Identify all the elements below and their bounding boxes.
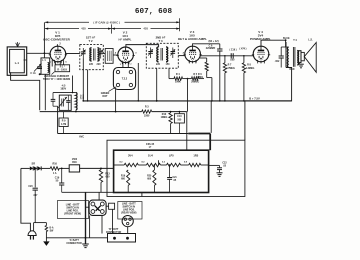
tube V1 1R5 OSC-CONVERTER (50, 46, 66, 62)
switch note left box (58, 201, 89, 219)
svg-text:R 3: R 3 (145, 106, 149, 109)
svg-text:1R5: 1R5 (193, 154, 198, 158)
trimmer capacitor T2 secondary (98, 51, 103, 53)
tube V2 1U4 IF amplifier (118, 47, 134, 63)
svg-text:THRU 'R' = 1000 OHMS: THRU 'R' = 1000 OHMS (43, 78, 71, 81)
svg-text:( IF GAIN @ 455KC ): ( IF GAIN @ 455KC ) (93, 20, 120, 24)
V3 bottom pins (195, 61, 197, 63)
svg-text:L-1: L-1 (15, 61, 20, 65)
wire V3 plate to coupling network (200, 55, 254, 57)
svg-text:1 A: 1 A (53, 172, 57, 175)
capacitor C21 inside box (169, 164, 171, 166)
resistor R16 (50, 167, 59, 170)
winding T4 secondary (297, 51, 298, 65)
capacitor box 500MMF (174, 114, 184, 123)
AVC line M3 (58, 133, 189, 135)
svg-text:C13: C13 (177, 116, 182, 118)
antenna symbol (16, 43, 18, 47)
svg-text:3V4: 3V4 (128, 154, 133, 158)
filament wiring inner box (114, 150, 209, 192)
dimension tick above V2 (111, 24, 113, 33)
tube V4 3V4 power amplifier (253, 46, 269, 62)
wire from tube area down to mixer network (72, 76, 74, 93)
resistor R10 1MEG (170, 112, 172, 113)
svg-text:L.S.: L.S. (308, 39, 313, 42)
svg-text:(REAR VIEW): (REAR VIEW) (121, 211, 136, 214)
tuning capacitor C1A (37, 66, 42, 68)
svg-text:LP5: LP5 (169, 154, 174, 158)
svg-text:C66-45: C66-45 (146, 143, 155, 146)
svg-text:OSC-CONVERTER: OSC-CONVERTER (43, 37, 71, 41)
svg-text:220: 220 (156, 63, 161, 66)
trimmer capacitor T3 secondary (171, 51, 176, 53)
svg-text:DOT: DOT (102, 95, 108, 98)
wire stub above filament line (158, 160, 160, 165)
svg-text:220: 220 (97, 63, 102, 66)
svg-text:( C16 ): ( C16 ) (229, 49, 236, 51)
core T3 (160, 48, 162, 61)
svg-text:R 1 *: R 1 * (60, 67, 65, 69)
wire T2 secondary to V2 grid (103, 53, 105, 55)
svg-text:455: 455 (143, 27, 148, 31)
svg-text:100K: 100K (175, 81, 181, 84)
node AVC osc can (115, 111, 117, 113)
wire box to switch (98, 193, 100, 201)
wire plug second lead (33, 223, 35, 231)
grid resistor box R9 (59, 118, 68, 127)
wire M2 end down to M3 (186, 112, 188, 134)
wire top of mixer network (53, 92, 76, 94)
svg-text:(FRONT VIEW): (FRONT VIEW) (64, 213, 81, 216)
svg-text:1MEG: 1MEG (161, 116, 168, 119)
svg-text:3300: 3300 (144, 114, 150, 117)
thick chassis lead (85, 192, 87, 244)
svg-text:T 3: T 3 (158, 39, 162, 43)
svg-text:DET & AUDIO AMPL: DET & AUDIO AMPL (178, 37, 207, 41)
capacitor C20 .047 across line (34, 168, 36, 187)
fuse coil B-A lead (45, 223, 47, 226)
resistor R13 680 (100, 168, 102, 169)
svg-text:150: 150 (166, 63, 171, 66)
winding T3 primary (157, 47, 159, 62)
wire osc can right lead to B+ bus (137, 63, 139, 101)
svg-text:R 4: R 4 (176, 73, 180, 76)
wire V4 plate to output transformer (261, 40, 286, 47)
svg-text:COIL: COIL (82, 94, 84, 100)
svg-text:T 2: T 2 (88, 39, 92, 43)
svg-text:R18: R18 (72, 161, 77, 164)
wire inner box bottom to outer box bottom (141, 193, 143, 197)
dimension line IF GAIN @ 455KC (45, 21, 89, 23)
svg-text:1MEG: 1MEG (196, 76, 203, 79)
volume control box (59, 95, 71, 110)
filament string resistors (114, 164, 125, 166)
svg-text:3.3MEG: 3.3MEG (246, 67, 255, 70)
wire from M3 into filament box (186, 134, 188, 151)
svg-text:680: 680 (106, 176, 111, 179)
wire antenna to V1 grid (27, 52, 50, 54)
svg-text:1U4: 1U4 (148, 154, 153, 158)
B+ 7.5V bus (83, 100, 291, 102)
trimmer capacitor T3 primary (148, 51, 153, 53)
svg-text:607, 608: 607, 608 (135, 8, 173, 16)
wire T4 primary bottom to B+ bus (245, 68, 292, 101)
resistor R1 metering note box (55, 65, 70, 72)
node antenna/grid junction (39, 53, 41, 80)
trimmer capacitor T2 primary (81, 51, 86, 53)
oscillator/antenna coil L1 box (41, 58, 50, 74)
AC plug (28, 231, 36, 236)
svg-text:T.2.2: T.2.2 (122, 78, 128, 81)
wire bus down to B- corner (210, 101, 212, 133)
capacitor inside network (66, 100, 70, 102)
svg-text:BLUE: BLUE (283, 37, 290, 40)
IF transformer T2 dashed can (80, 45, 104, 70)
wire vertical from dimension arrows to grid line (43, 22, 45, 58)
wire V2 plate to 2nd IF primary (126, 45, 159, 48)
V1 bottom pin stubs (51, 60, 53, 67)
ground speaker (299, 63, 301, 64)
svg-text:R - 100 K: R - 100 K (57, 70, 67, 72)
svg-text:B-A: B-A (49, 227, 53, 230)
svg-text:C20: C20 (28, 186, 33, 188)
svg-text:20MEG: 20MEG (191, 81, 199, 84)
svg-text:OSC: OSC (79, 95, 81, 100)
loop antenna L-1 (7, 47, 27, 75)
power line from plug (21, 167, 30, 169)
svg-text:220MMF: 220MMF (206, 47, 216, 50)
svg-text:I-F AMPL: I-F AMPL (118, 37, 131, 41)
connector socket pictorial (122, 216, 133, 227)
svg-text:(84 + 12): (84 + 12) (208, 40, 218, 43)
wire osc can to AVC bus (115, 90, 117, 112)
dimension line 455 right segment (112, 28, 141, 30)
oscillator coil can pictorial (113, 68, 135, 90)
wire R13 down to chassis line (100, 182, 102, 192)
wire V1 pin to B+ bus (63, 65, 65, 69)
svg-text:CONNECTOR: CONNECTOR (66, 242, 82, 245)
svg-text:.005: .005 (230, 58, 235, 61)
winding T2 secondary (97, 48, 99, 61)
coupling capacitor C7 .005 (230, 53, 232, 58)
svg-text:220: 220 (89, 63, 94, 66)
svg-text:.002: .002 (275, 60, 280, 63)
filament shunt resistor R19 (127, 164, 129, 166)
dimension tick right end (179, 18, 181, 31)
core T2 (93, 49, 95, 61)
resistor R3 in AVC bus (142, 110, 152, 113)
tube V3 1U5 det audio (185, 46, 201, 62)
wire plug to power line (21, 168, 31, 231)
wire T3 can ground to bus (156, 68, 158, 101)
wire detector junction down to B- line (187, 79, 189, 112)
capacitor C5 left (51, 98, 56, 100)
svg-text:C21: C21 (172, 177, 177, 179)
wire T3 secondary to V3 grid (178, 55, 185, 57)
wire T2 can ground lead to bus (87, 70, 89, 101)
detector load resistors R4 R5 (169, 78, 174, 80)
switch note right box (118, 202, 142, 220)
wire V1 plate to 1st IF (65, 53, 80, 55)
B batt connector box (108, 234, 136, 243)
A batt line (46, 237, 107, 239)
grid coupling box to V2 (105, 49, 113, 64)
wire L1 box bottom to AVC bus (44, 74, 46, 110)
node bus T3 (156, 100, 158, 102)
svg-text:4.7MEG: 4.7MEG (226, 67, 235, 70)
dimension line 455 left segment (45, 28, 79, 30)
wires from switch bottom (89, 215, 91, 237)
svg-text:4.7M: 4.7M (61, 123, 66, 126)
small box right of switch (106, 205, 109, 207)
wire T3 secondary bottom to detector load (168, 68, 170, 78)
oscillator coil L2 (76, 93, 77, 110)
winding T2 primary (90, 48, 92, 61)
capacitor C22 to chassis (209, 164, 220, 166)
wire R6 to bus (207, 77, 212, 79)
resistor R18 1500 boxed (69, 165, 79, 172)
svg-text:R19: R19 (121, 175, 126, 177)
svg-text:AVC: AVC (79, 136, 84, 139)
capacitor C17 .002 across primary (282, 40, 284, 56)
svg-text:RED: RED (289, 68, 294, 71)
line-batt switch pictorial (89, 200, 106, 215)
wire T2 primary return to bus (82, 59, 84, 101)
svg-text:R16: R16 (53, 163, 58, 166)
wire connector socket to box (127, 227, 129, 234)
wire loop bottom return (11, 72, 40, 110)
svg-text:1500: 1500 (72, 158, 78, 161)
wire V3 plate to bypass (193, 44, 220, 47)
battery cable outer box (107, 140, 245, 196)
svg-text:455: 455 (81, 27, 86, 31)
svg-text:C 1A: C 1A (30, 72, 36, 75)
svg-text:B + 7.5V: B + 7.5V (249, 97, 260, 101)
wire B+ bus down right side (244, 101, 246, 140)
ground A lead (43, 241, 49, 246)
resistor R8 3.3MEG (243, 55, 245, 57)
svg-text:R20: R20 (147, 175, 152, 177)
resistor R6 V3 cathode (205, 62, 208, 71)
pin 2 stub V1 top (56, 44, 58, 46)
V2 bottom pins to oscillator coil can (122, 62, 124, 68)
resistor R7 4.7MEG grid leak (224, 55, 226, 57)
svg-text:C22: C22 (222, 163, 227, 165)
wire into switch left (86, 206, 90, 208)
core T4 (292, 47, 294, 67)
chassis return line (62, 191, 114, 193)
ground chassis bottom (82, 243, 89, 245)
svg-text:SR: SR (32, 163, 36, 166)
svg-text:185V: 185V (60, 88, 66, 91)
winding T3 secondary (166, 47, 168, 62)
IF transformer T3 dashed can (146, 43, 178, 68)
AVC bus M2 (40, 111, 142, 113)
B- thick link to filament box (188, 133, 210, 135)
filament shunt resistor R20 (154, 164, 156, 166)
svg-text:( 474 ): ( 474 ) (240, 47, 247, 50)
